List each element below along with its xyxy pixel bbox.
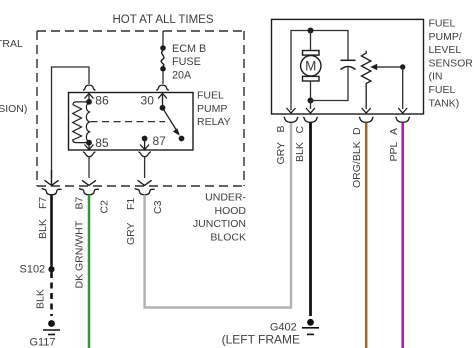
connector cup below junction at F7 bbox=[42, 189, 62, 195]
svg-text:GRY: GRY bbox=[125, 222, 137, 245]
wire from HOT AT ALL TIMES to fuse bbox=[162, 31, 164, 46]
svg-text:SION): SION) bbox=[0, 103, 27, 115]
connector cup below pin C bbox=[303, 117, 318, 122]
svg-text:TANK): TANK) bbox=[429, 97, 460, 109]
svg-text:87: 87 bbox=[153, 134, 167, 148]
wire BLK C to ground G402 bbox=[309, 123, 312, 317]
svg-text:F1: F1 bbox=[125, 198, 137, 210]
svg-text:GRY: GRY bbox=[275, 142, 287, 165]
pin D arrow bbox=[362, 108, 371, 113]
fuel pump / level sensor box bbox=[272, 19, 424, 114]
svg-text:30: 30 bbox=[141, 94, 155, 108]
svg-text:FUEL: FUEL bbox=[429, 18, 456, 30]
svg-text:LEVEL: LEVEL bbox=[429, 44, 462, 56]
ground G117 bbox=[48, 320, 55, 327]
level sensor resistor bbox=[361, 51, 371, 109]
svg-text:PUMP: PUMP bbox=[197, 103, 227, 115]
svg-text:85: 85 bbox=[95, 136, 109, 150]
svg-text:UNDER-: UNDER- bbox=[205, 192, 246, 204]
svg-text:BLK: BLK bbox=[35, 289, 47, 309]
wire DK GRN/WHT B7 bbox=[88, 195, 91, 348]
svg-text:D: D bbox=[351, 127, 363, 135]
pump inner loop wires bbox=[291, 31, 348, 111]
female terminal below relay pin 85 bbox=[83, 152, 96, 157]
pin 87 contact bbox=[142, 136, 148, 142]
connector cup below pin B bbox=[284, 117, 299, 122]
svg-text:C: C bbox=[294, 126, 306, 134]
svg-text:B: B bbox=[275, 125, 287, 132]
ground G402 bbox=[307, 319, 314, 326]
node below motor bbox=[308, 98, 314, 104]
female terminal at relay pin 86 bbox=[83, 85, 96, 90]
svg-text:SENSOR: SENSOR bbox=[429, 57, 474, 69]
svg-text:ECM B: ECM B bbox=[172, 43, 206, 55]
svg-text:BLK: BLK bbox=[294, 142, 306, 162]
svg-text:G117: G117 bbox=[29, 337, 55, 348]
svg-text:DK GRN/WHT: DK GRN/WHT bbox=[74, 220, 86, 288]
switch blade from pin 30 bbox=[160, 105, 166, 111]
svg-text:FUSE: FUSE bbox=[172, 56, 201, 68]
svg-text:86: 86 bbox=[95, 94, 109, 108]
wire capacitor to bottom node bbox=[311, 68, 349, 101]
female terminal at relay pin 30 bbox=[156, 85, 169, 90]
pin 30 arrow (inside relay, pointing up) bbox=[158, 94, 167, 108]
connector cup below junction at F1 / C3 bbox=[135, 189, 155, 195]
svg-text:BLOCK: BLOCK bbox=[210, 232, 246, 244]
splice S102 bbox=[48, 266, 54, 272]
pin B arrow (inside box, pointing down) bbox=[287, 108, 296, 113]
svg-text:(IN: (IN bbox=[429, 71, 443, 83]
wire from relay pin 86 up and left to junction wire F7 bbox=[52, 67, 90, 178]
capacitor bbox=[341, 59, 356, 61]
connector cup below pin D bbox=[359, 117, 374, 122]
svg-text:TRAL: TRAL bbox=[0, 38, 23, 50]
pin 87 arrow (inside relay, pointing down) bbox=[140, 140, 149, 150]
wire loop top to motor bbox=[310, 31, 312, 51]
wire pin 85 to junction boundary bbox=[88, 157, 90, 178]
svg-text:(LEFT FRAME: (LEFT FRAME bbox=[222, 333, 300, 347]
svg-text:HOT AT ALL TIMES: HOT AT ALL TIMES bbox=[113, 14, 214, 26]
svg-text:ORG/BLK: ORG/BLK bbox=[351, 141, 363, 188]
pin 86 arrow (inside relay, pointing up) bbox=[85, 94, 94, 102]
svg-text:20A: 20A bbox=[172, 69, 192, 81]
wire fuse to relay pin 30 bbox=[162, 72, 164, 84]
svg-text:HOOD: HOOD bbox=[215, 205, 247, 217]
fuse ECM B 20A bbox=[160, 45, 166, 71]
svg-text:B7: B7 bbox=[74, 196, 86, 209]
wiper arrow bbox=[376, 66, 403, 68]
svg-text:PPL: PPL bbox=[388, 141, 400, 161]
relay box FUEL PUMP RELAY bbox=[69, 93, 194, 151]
svg-text:RELAY: RELAY bbox=[197, 116, 231, 128]
wire pin 87 to junction boundary bbox=[144, 157, 146, 178]
relay actuation dashed line bbox=[91, 121, 166, 123]
svg-text:A: A bbox=[388, 128, 400, 135]
wire ORG/BLK D bbox=[365, 123, 368, 348]
relay coil between pins 86 and 85 bbox=[86, 99, 92, 105]
svg-text:JUNCTION: JUNCTION bbox=[193, 218, 246, 230]
wire bottom node to pin C bbox=[310, 101, 312, 110]
underhood junction block dashed outline bbox=[37, 31, 244, 186]
wire GRY F1 from junction to fuel pump pin B bbox=[145, 123, 291, 308]
svg-text:M: M bbox=[305, 59, 316, 74]
svg-text:BLK: BLK bbox=[37, 219, 49, 239]
pin A arrow bbox=[398, 108, 407, 113]
junction boundary arrow at wire F1 bbox=[138, 180, 152, 185]
connector cup below junction at B7 / C2 bbox=[79, 189, 99, 195]
svg-text:S102: S102 bbox=[19, 263, 45, 275]
svg-text:F7: F7 bbox=[37, 197, 49, 209]
pin 85 arrow (inside relay, pointing down) bbox=[85, 144, 94, 150]
svg-text:FUEL: FUEL bbox=[429, 84, 456, 96]
node at loop top bbox=[308, 28, 314, 34]
motor M (fuel pump) bbox=[301, 51, 321, 82]
dashed BLK wire S102 to G117 bbox=[50, 272, 53, 316]
pin C arrow bbox=[306, 108, 315, 113]
wire BLK F7 to S102 bbox=[50, 195, 53, 267]
wire motor to bottom node bbox=[310, 81, 312, 101]
svg-text:FUEL: FUEL bbox=[197, 90, 224, 102]
junction boundary arrow at wire B7 bbox=[82, 180, 96, 185]
female terminal below relay pin 87 bbox=[138, 152, 151, 157]
wire PPL A bbox=[401, 123, 404, 348]
junction boundary arrow at wire F7 bbox=[45, 170, 59, 185]
svg-text:C2: C2 bbox=[99, 200, 111, 214]
connector cup below pin A bbox=[395, 117, 410, 122]
svg-text:PUMP/: PUMP/ bbox=[429, 31, 462, 43]
wire wiper to pin A bbox=[402, 67, 404, 109]
svg-text:C3: C3 bbox=[152, 200, 164, 214]
